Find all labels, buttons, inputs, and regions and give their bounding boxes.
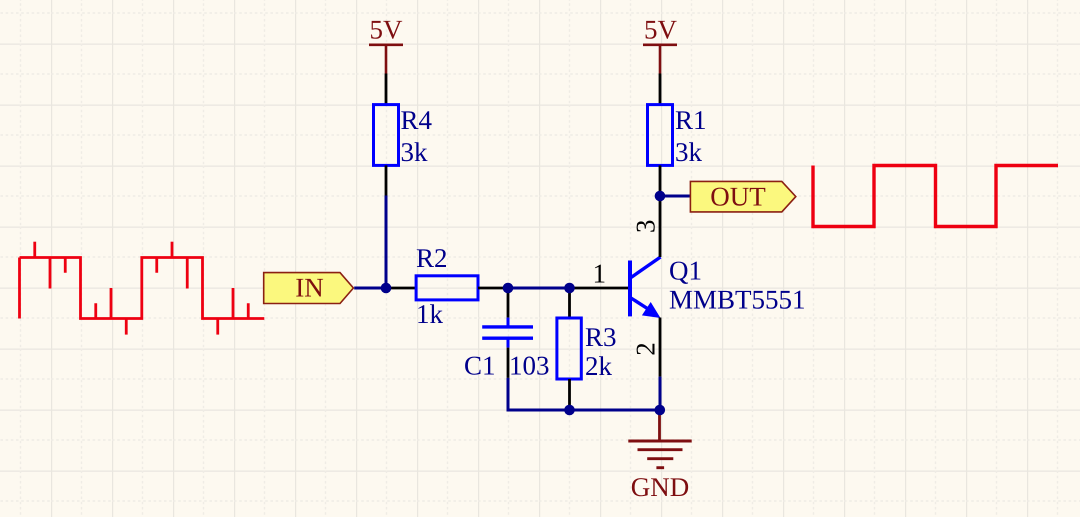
resistor R1: [648, 105, 705, 166]
wire R2 pin 1 (black): [386, 287, 416, 290]
junction node at OUT: [655, 191, 666, 202]
junction node R3 bottom: [564, 405, 575, 416]
ground symbol GND: [628, 410, 691, 496]
wire OUT node to port: [660, 195, 690, 198]
capacitor C1: [465, 288, 548, 378]
wire emitter to ground rail: [659, 377, 662, 410]
junction node at IN column: [381, 283, 392, 294]
junction node at R3 column: [564, 283, 575, 294]
pin number 2 (emitter): [637, 344, 655, 355]
power symbol 5V (net VCC, over R1): [643, 21, 677, 74]
wire R1 pin 1 (black): [659, 74, 662, 105]
wire ground rail: [508, 378, 660, 410]
wire R4 pin 2 (black): [385, 165, 388, 195]
pin number 1 (base): [595, 265, 605, 283]
resistor R2: [416, 249, 478, 323]
pin number 3 (collector): [637, 221, 655, 232]
junction node emitter bottom: [655, 405, 666, 416]
output square waveform: [813, 166, 1058, 227]
wire R4 pin 1 (black): [385, 74, 388, 105]
wire R1 pin 2 (black): [659, 165, 662, 196]
wire Q1 base pin 1 (black): [570, 287, 631, 290]
resistor R4: [374, 105, 432, 166]
transistor Q1 MMBT5551: [630, 257, 804, 318]
wire Q1 emitter pin 2 (black): [659, 318, 662, 377]
wire IN port to node: [354, 287, 386, 290]
resistor R3: [557, 288, 616, 410]
port OUT: [690, 181, 795, 212]
wire C1 node to R3 node: [508, 287, 570, 290]
input noise waveform: [20, 242, 265, 335]
wire Q1 collector pin 3 (black): [659, 196, 662, 257]
wire vertical to IN node: [385, 196, 388, 289]
port IN: [264, 273, 354, 304]
junction node at C1 column: [503, 283, 514, 294]
wire R2 pin 2 (black): [478, 287, 508, 290]
power symbol 5V (net VCC, over R4): [369, 21, 403, 74]
